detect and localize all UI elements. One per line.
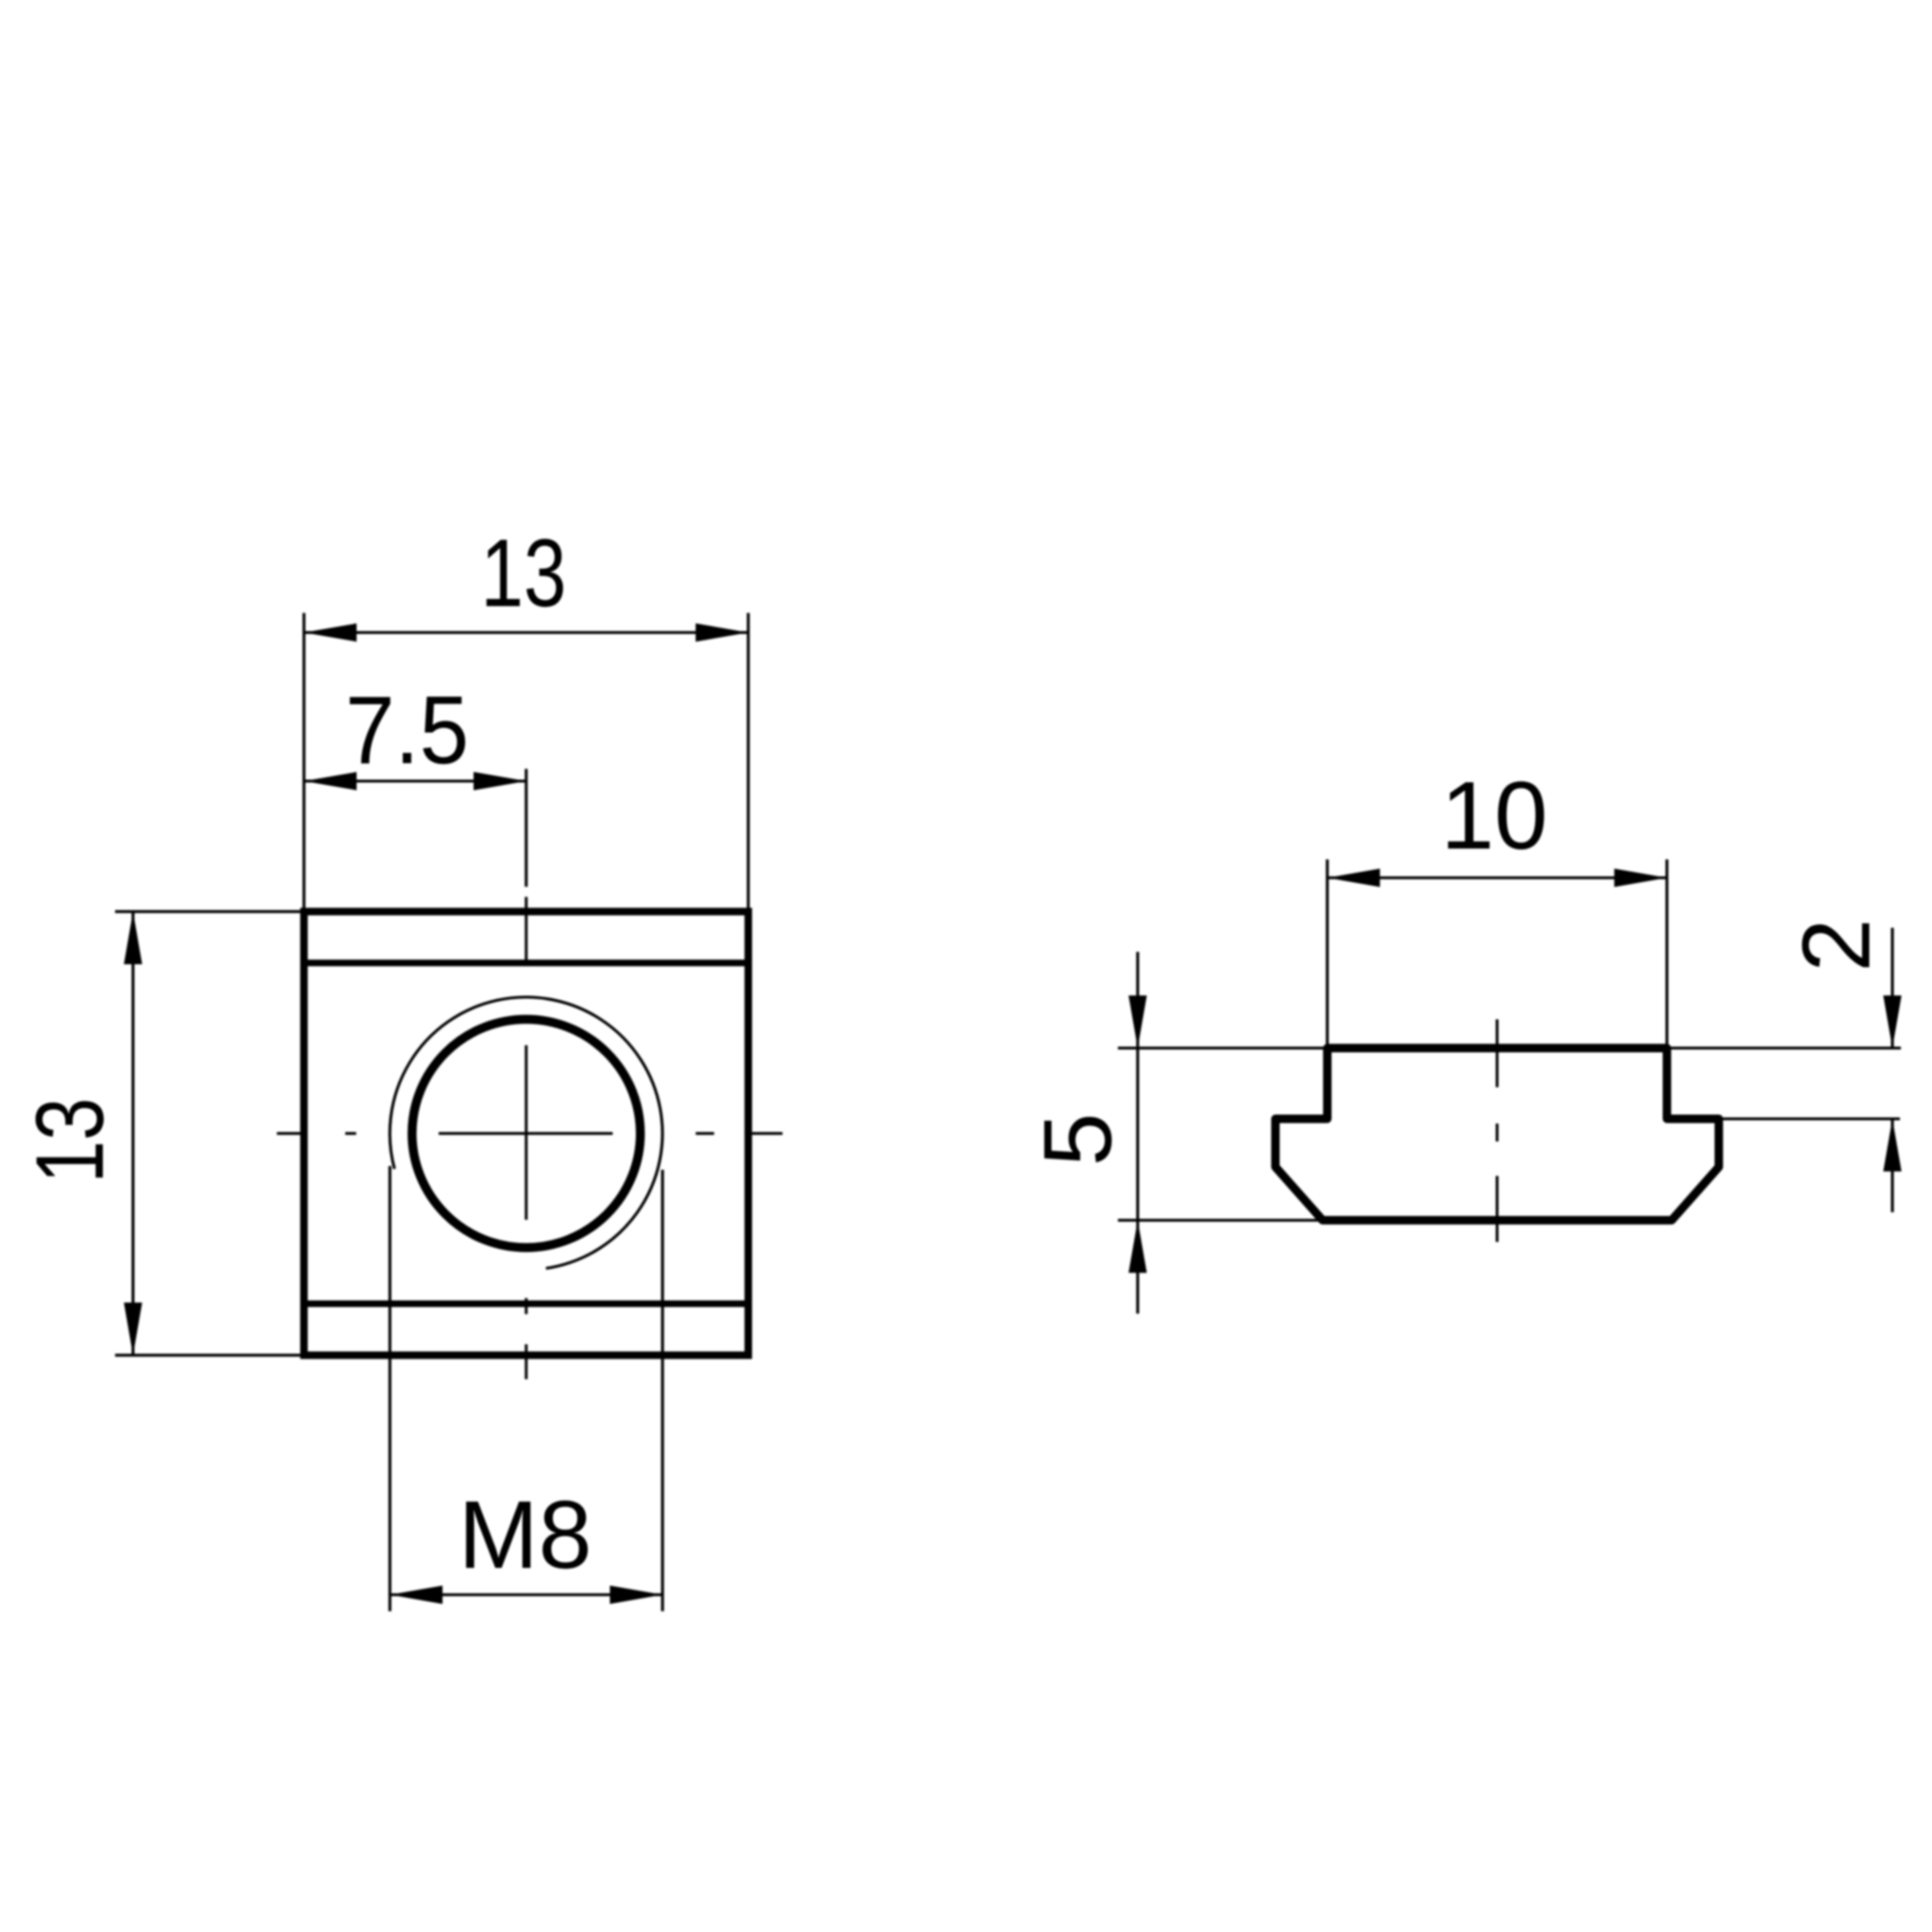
dimension M8: left extension line bbox=[389, 1166, 391, 1611]
dimension 13 left: top arrowhead bbox=[124, 911, 142, 964]
dimension 13 top: right arrowhead bbox=[695, 624, 748, 641]
side view: vertical centerline bbox=[1496, 1020, 1499, 1242]
dimension 10: left extension line bbox=[1325, 859, 1328, 1045]
svg-text:13: 13 bbox=[16, 1098, 124, 1184]
side view: T-nut profile outline bbox=[1275, 1048, 1719, 1221]
dimension 5: bottom arrow tail bbox=[1136, 1221, 1139, 1314]
dimension 10: right arrowhead bbox=[1614, 869, 1667, 887]
dimension 10: right extension line bbox=[1665, 859, 1668, 1045]
dimension 7.5: right arrowhead bbox=[474, 772, 526, 790]
svg-text:5: 5 bbox=[1024, 1113, 1131, 1167]
front view: top chamfer edge line bbox=[304, 959, 748, 966]
dimension 2: bottom arrow tail bbox=[1890, 1119, 1893, 1212]
dimension 5: top arrowhead (outside, pointing down) bbox=[1128, 995, 1146, 1048]
dimension M8: dimension line bbox=[390, 1593, 662, 1596]
dimension 10: left arrowhead bbox=[1327, 869, 1380, 887]
dimension 13 top: left arrowhead bbox=[304, 624, 357, 641]
dimension M8: right arrowhead bbox=[610, 1586, 663, 1604]
dimension 13 top: dimension line bbox=[304, 631, 748, 634]
dimension 10: dimension line bbox=[1327, 876, 1667, 879]
dimension 13 left: bottom extension line bbox=[115, 1354, 307, 1357]
svg-text:13: 13 bbox=[481, 520, 567, 627]
side view: top reference line bbox=[1118, 1046, 1901, 1049]
dimension 13 top: right extension line bbox=[747, 613, 750, 915]
dimension 13 left: top extension line bbox=[115, 910, 307, 913]
dimension 7.5: dimension line bbox=[304, 779, 526, 782]
thread minor-diameter circle bbox=[412, 1020, 641, 1248]
side view: step reference line bbox=[1719, 1117, 1900, 1120]
dimension 5: top arrow tail bbox=[1136, 952, 1139, 1048]
front view: bottom chamfer edge line bbox=[304, 1301, 748, 1307]
svg-text:7.5: 7.5 bbox=[345, 676, 469, 784]
vertical centerline of hole bbox=[525, 897, 527, 1379]
dimension 5: bottom arrowhead (outside, pointing up) bbox=[1128, 1221, 1146, 1274]
dimension M8: left arrowhead bbox=[390, 1586, 442, 1604]
dimension 2: top arrowhead (outside, pointing down) bbox=[1883, 995, 1901, 1048]
dimension 13 top: left extension line bbox=[303, 613, 306, 915]
dimension 5: dimension line bbox=[1136, 1048, 1139, 1221]
dimension 13 left: bottom arrowhead bbox=[124, 1303, 142, 1356]
svg-text:2: 2 bbox=[1783, 919, 1890, 973]
horizontal centerline of hole bbox=[277, 1132, 783, 1135]
dimension 2: bottom arrowhead (outside, pointing up) bbox=[1883, 1119, 1901, 1172]
svg-text:10: 10 bbox=[1441, 762, 1547, 870]
dimension 7.5: left arrowhead bbox=[304, 772, 357, 790]
dimension 7.5: extension line to hole axis bbox=[525, 769, 527, 887]
front view: nut body outline bbox=[304, 911, 748, 1355]
dimension 2: top arrow tail bbox=[1890, 928, 1893, 1049]
thread crest arc (3/4 circle) bbox=[390, 997, 662, 1268]
dimension M8: right extension line bbox=[661, 1170, 664, 1611]
dimension 13 left: dimension line bbox=[131, 911, 134, 1355]
svg-text:M8: M8 bbox=[458, 1481, 592, 1589]
side view: bottom reference line bbox=[1118, 1219, 1323, 1222]
